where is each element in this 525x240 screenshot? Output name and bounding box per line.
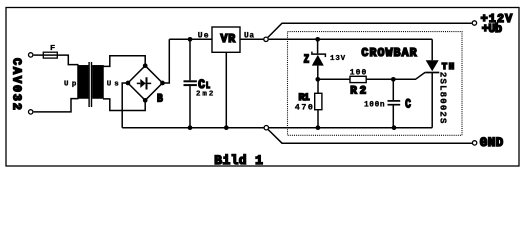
thyristor TH triangle: [426, 60, 439, 71]
wire bridge minus to bottom rail: [122, 83, 128, 128]
svg-text:100: 100: [350, 69, 367, 78]
thyristor TH cathode bar: [425, 72, 439, 74]
capacitor CL bottom plate: [184, 84, 197, 86]
wire gate node to thyristor gate: [393, 72, 425, 79]
capacitor C bottom lead: [392, 106, 394, 128]
bridge rectifier B diamond: [128, 66, 163, 101]
transformer core: [89, 62, 91, 107]
zener bottom lead: [317, 66, 319, 80]
junction dot R1 bottom: [316, 125, 321, 130]
junction dot gate row left: [315, 77, 320, 82]
junction dot C bottom: [392, 125, 397, 130]
svg-text:B: B: [157, 94, 163, 106]
junction dot gate node: [391, 77, 396, 82]
capacitor CL top plate: [184, 80, 197, 82]
capacitor CL top lead: [189, 39, 191, 80]
thyristor TH cathode lead: [431, 73, 433, 128]
wire secondary bottom to bridge AC2: [103, 99, 145, 111]
svg-text:2m2: 2m2: [196, 91, 213, 99]
svg-text:Ue: Ue: [198, 32, 209, 41]
junction dot VR ground: [224, 125, 229, 130]
capacitor C bottom plate: [388, 104, 401, 106]
svg-text:Bild 1: Bild 1: [214, 153, 263, 168]
terminal T1 (mains top): [29, 53, 33, 57]
svg-text:2SL8002S: 2SL8002S: [437, 72, 447, 124]
wire bridge plus to top rail: [163, 39, 170, 83]
wire VR out to Ua node: [240, 38, 263, 40]
wire T1 to fuse: [34, 54, 44, 56]
zener Z top lead: [317, 39, 319, 53]
bottom rail: [122, 127, 432, 129]
bridge internal diode lead left: [137, 82, 141, 84]
wire secondary top to bridge AC1: [103, 56, 145, 67]
capacitor C top plate: [388, 100, 401, 102]
transformer primary winding Up: [78, 66, 88, 98]
capacitor C top lead: [392, 79, 394, 100]
svg-text:C: C: [198, 78, 205, 92]
svg-text:GND: GND: [480, 136, 504, 150]
wire Ua into crowbar: [269, 38, 433, 40]
zener Z cathode bar: [312, 52, 326, 58]
terminal T2 (mains bottom): [29, 110, 33, 114]
svg-text:L: L: [206, 80, 210, 91]
thyristor TH anode lead: [431, 39, 433, 60]
junction dot CL bottom: [188, 125, 193, 130]
node Ua open circle: [264, 37, 268, 41]
svg-text:C: C: [405, 96, 411, 111]
VR ground lead: [225, 52, 227, 127]
svg-text:TH: TH: [442, 62, 454, 72]
bridge node dot left: [126, 81, 131, 86]
wire R2 to gate node: [366, 78, 393, 80]
resistor R2 body: [350, 76, 366, 82]
junction dot CL top: [188, 37, 193, 42]
bridge internal diode cathode bar: [146, 77, 148, 89]
bridge internal diode triangle: [140, 79, 145, 88]
svg-text:CROWBAR: CROWBAR: [361, 47, 416, 60]
top rail to VR: [169, 38, 212, 40]
border frame: [6, 8, 519, 167]
svg-text:13V: 13V: [330, 55, 346, 63]
bridge node dot top: [143, 63, 148, 68]
resistor R1 body: [315, 93, 322, 109]
zener Z triangle: [312, 55, 324, 66]
svg-text:VR: VR: [221, 33, 236, 46]
bridge node dot bottom: [143, 98, 148, 103]
svg-text:Z: Z: [304, 52, 310, 66]
wire Ua diagonal to +12V rail: [268, 23, 472, 37]
bridge node dot right: [160, 81, 165, 86]
transformer secondary winding Us: [93, 66, 103, 98]
node GND open circle on rail: [264, 126, 268, 130]
wire GND diagonal branch: [268, 130, 472, 144]
svg-text:+Ub: +Ub: [482, 22, 502, 36]
terminal +12V: [472, 21, 476, 25]
wire fuse to transformer primary: [57, 55, 78, 65]
crowbar dotted box: [288, 32, 463, 136]
svg-text:100n: 100n: [364, 101, 385, 109]
terminal GND: [472, 141, 476, 145]
fuse F body: [43, 52, 57, 58]
wire T2 to transformer primary bottom: [34, 99, 79, 112]
capacitor CL bottom lead: [189, 86, 191, 128]
fuse F through line: [44, 54, 57, 56]
svg-text:F: F: [50, 45, 55, 53]
bridge internal diode lead right: [148, 82, 152, 84]
svg-text:470: 470: [295, 102, 313, 112]
junction dot zener top: [315, 37, 320, 42]
voltage regulator VR box: [212, 27, 240, 52]
resistor R1 top lead: [317, 79, 319, 93]
wire zener node to R2: [318, 78, 350, 80]
resistor R1 bottom lead: [317, 110, 319, 128]
